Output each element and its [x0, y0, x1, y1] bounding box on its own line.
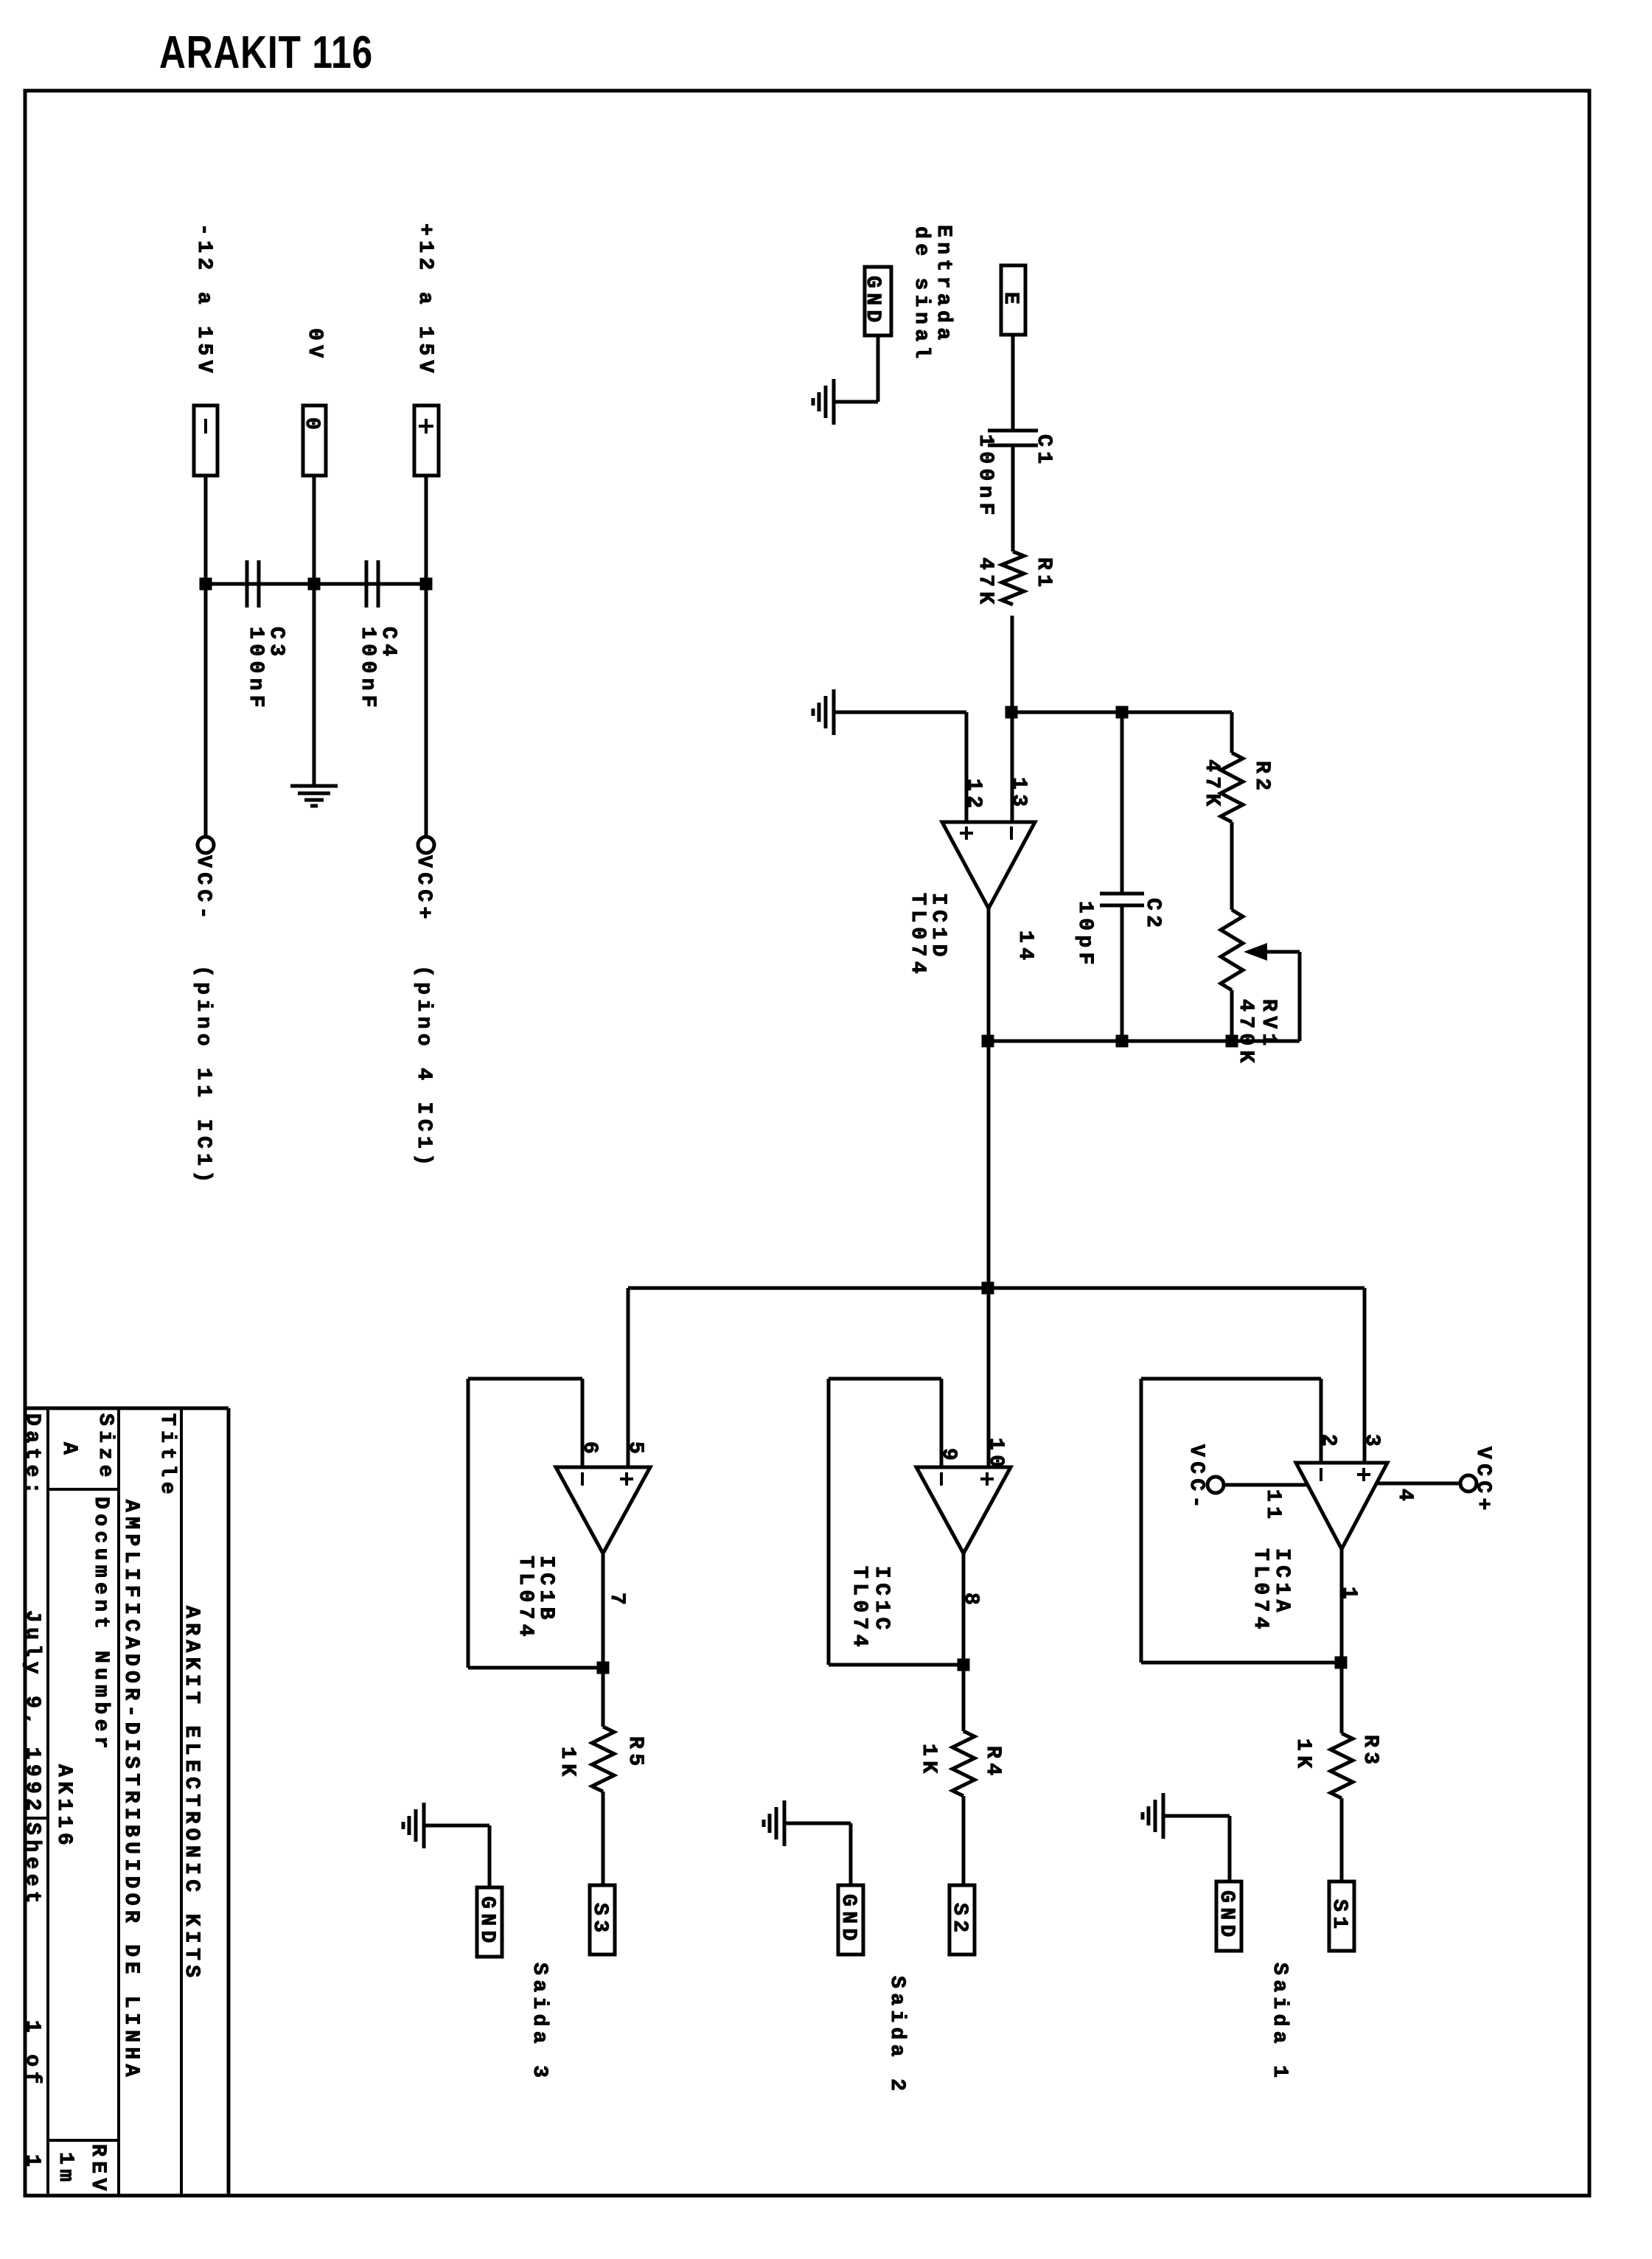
connector P0 (0V) [300, 405, 326, 476]
svg-text:47K: 47K [1200, 759, 1223, 811]
svg-text:GND: GND [1215, 1890, 1238, 1942]
junction IC1A output [1335, 1657, 1348, 1669]
resistor R5 [592, 1727, 614, 1792]
wire E to C1 [1011, 335, 1015, 431]
wire RV1 to junction [1230, 990, 1234, 1041]
connector GND (input) [861, 267, 891, 335]
svg-text:IC1A: IC1A [1270, 1548, 1293, 1617]
svg-text:TL074: TL074 [514, 1556, 537, 1641]
svg-text:A: A [57, 1442, 80, 1459]
node VCC+ bubble (IC1A) [1460, 1475, 1477, 1492]
wire IC1A output [1340, 1549, 1344, 1733]
wire R3 to S1 [1340, 1798, 1344, 1882]
svg-text:-12 a 15V: -12 a 15V [192, 223, 215, 377]
svg-text:IC1B: IC1B [534, 1556, 557, 1624]
op-amp IC1D [942, 822, 1035, 908]
svg-text:AMPLIFICADOR-DISTRIBUIDOR DE L: AMPLIFICADOR-DISTRIBUIDOR DE LINHA [119, 1500, 142, 2081]
ground (IC1D + input) [813, 689, 834, 735]
svg-text:13: 13 [1007, 777, 1030, 811]
svg-text:0: 0 [300, 417, 323, 434]
connector GND (S1) [1215, 1882, 1241, 1951]
junction power zero [308, 578, 321, 591]
capacitor C3 [247, 560, 259, 608]
svg-text:R4: R4 [981, 1746, 1004, 1780]
connector P+ (+12 a 15V) [414, 405, 439, 476]
svg-text:+12 a 15V: +12 a 15V [414, 223, 436, 377]
wire input gnd [834, 335, 878, 402]
svg-text:Entrada: Entrada [932, 225, 955, 344]
wire bus to IC1A + [1363, 1288, 1367, 1463]
node VCC- bubble [198, 837, 214, 853]
op-amp IC1C [916, 1467, 1011, 1553]
svg-text:de sinal: de sinal [910, 226, 933, 363]
op-amp IC1A [1296, 1463, 1387, 1549]
junction IC1B output [597, 1662, 610, 1674]
ground (S2) [764, 1800, 784, 1846]
svg-text:11: 11 [1261, 1489, 1284, 1523]
junction IC1C output [958, 1659, 970, 1671]
wire IC1D output [987, 908, 991, 1467]
junction output/feedback [982, 1035, 994, 1048]
connector S3 [588, 1885, 615, 1955]
resistor R4 [952, 1731, 975, 1796]
svg-text:Title: Title [156, 1413, 178, 1499]
connector E (signal input) [999, 265, 1025, 335]
op-amp IC1B [556, 1467, 650, 1553]
svg-text:S1: S1 [1328, 1899, 1350, 1933]
wire C2 line right [1120, 905, 1124, 1041]
wire 0 rail [313, 476, 316, 786]
svg-text:4: 4 [1393, 1489, 1416, 1506]
junction power plus [420, 578, 433, 591]
wire C2 line left [1120, 712, 1124, 894]
svg-text:1m: 1m [54, 2152, 77, 2186]
svg-text:10: 10 [984, 1438, 1007, 1472]
ground (S1) [1143, 1793, 1163, 1839]
connector S1 [1328, 1882, 1354, 1951]
svg-text:GND: GND [861, 276, 884, 327]
svg-text:0V: 0V [303, 328, 326, 362]
svg-text:Saida 2: Saida 2 [885, 1976, 908, 2095]
svg-text:R1: R1 [1032, 557, 1055, 591]
connector P- (-12 a 15V) [194, 405, 217, 476]
wire distribution bus vertical [628, 1287, 1365, 1290]
svg-text:GND: GND [475, 1896, 498, 1948]
junction power minus [200, 578, 212, 591]
svg-text:100nF: 100nF [356, 627, 379, 712]
svg-text:10pF: 10pF [1073, 901, 1096, 970]
svg-text:1K: 1K [1292, 1738, 1314, 1772]
wire R5 to S3 [602, 1792, 605, 1885]
svg-text:ARAKIT 116: ARAKIT 116 [159, 27, 373, 78]
svg-text:1: 1 [21, 2154, 43, 2171]
svg-text:47K: 47K [974, 557, 997, 609]
label Entrada de sinal [910, 225, 955, 363]
wire IC1B output [602, 1553, 605, 1727]
node VCC+ bubble [418, 837, 434, 853]
capacitor C2 [1100, 894, 1144, 905]
svg-text:TL074: TL074 [906, 893, 929, 978]
wire S1 gnd [1163, 1816, 1230, 1882]
trimmer RV1 [1221, 910, 1300, 1041]
junction RV1/feedback [1226, 1035, 1238, 1048]
wire R4 to S2 [962, 1796, 966, 1885]
svg-text:REV: REV [86, 2144, 109, 2196]
resistor R3 [1331, 1733, 1353, 1798]
svg-text:VCC+: VCC+ [1471, 1447, 1494, 1515]
svg-text:470K: 470K [1234, 999, 1257, 1068]
svg-text:AK116: AK116 [52, 1764, 75, 1850]
svg-text:5: 5 [624, 1441, 646, 1458]
svg-text:7: 7 [605, 1593, 628, 1609]
svg-text:TL074: TL074 [848, 1566, 871, 1651]
wire feedback vertical to output [988, 1040, 1232, 1043]
ground (power 0V rail) [290, 786, 338, 806]
ground (S3) [403, 1803, 424, 1848]
svg-text:14: 14 [1014, 930, 1036, 964]
wire C1 to R1 [1011, 445, 1015, 551]
svg-text:VCC-: VCC- [192, 855, 215, 924]
svg-text:1K: 1K [556, 1747, 579, 1781]
svg-text:S3: S3 [588, 1903, 611, 1937]
svg-text:C3: C3 [265, 627, 287, 661]
svg-text:3: 3 [1360, 1434, 1383, 1451]
svg-text:VCC-: VCC- [1185, 1444, 1207, 1513]
connector GND (S2) [837, 1885, 863, 1955]
svg-text:July 9, 1992: July 9, 1992 [21, 1610, 43, 1815]
wire bus to IC1B + [627, 1288, 630, 1467]
wire feedback node vertical [1011, 711, 1232, 714]
wire IC1C feedback [829, 1379, 963, 1665]
svg-text:RV1: RV1 [1257, 999, 1280, 1051]
svg-text:100nF: 100nF [974, 434, 997, 520]
svg-text:TL074: TL074 [1249, 1548, 1272, 1634]
junction node A [1006, 706, 1018, 719]
title block outline [25, 1408, 229, 2196]
wire R1 to inverting input (node A) [1011, 616, 1014, 822]
connector GND (S3) [475, 1887, 502, 1957]
capacitor C1 [988, 431, 1038, 445]
wire non-inverting input to ground [834, 712, 966, 822]
svg-text:S2: S2 [948, 1903, 971, 1937]
resistor R2 [1221, 753, 1243, 822]
wire VCC- pin 11 [1224, 1483, 1308, 1487]
svg-text:100nF: 100nF [244, 627, 267, 712]
svg-text:VCC+: VCC+ [412, 855, 435, 924]
wire IC1B feedback [468, 1379, 603, 1668]
wire R2 lead [1230, 712, 1234, 753]
svg-text:E: E [999, 292, 1022, 309]
wire IC1A feedback [1141, 1379, 1341, 1663]
svg-text:R5: R5 [624, 1736, 646, 1770]
svg-text:C1: C1 [1032, 434, 1055, 468]
capacitor C4 [366, 560, 378, 608]
svg-text:Saida 1: Saida 1 [1268, 1963, 1291, 2082]
svg-text:(pino 4 IC1): (pino 4 IC1) [412, 965, 435, 1170]
svg-text:1 of: 1 of [21, 2020, 43, 2089]
wire + rail [425, 476, 428, 837]
connector S2 [948, 1885, 975, 1955]
svg-text:1K: 1K [917, 1744, 940, 1778]
svg-text:(pino 11 IC1): (pino 11 IC1) [192, 965, 215, 1188]
node VCC- bubble (IC1A) [1207, 1477, 1224, 1493]
svg-text:IC1C: IC1C [870, 1566, 893, 1635]
wire IC1C output [962, 1553, 966, 1731]
svg-text:C2: C2 [1141, 898, 1164, 932]
svg-text:Date:: Date: [21, 1413, 43, 1499]
wire S3 gnd [424, 1825, 489, 1887]
wire VCC+ pin 4 [1376, 1482, 1460, 1486]
svg-text:Sheet: Sheet [21, 1823, 43, 1908]
wire - rail [204, 476, 208, 837]
wire S2 gnd [784, 1823, 851, 1885]
svg-text:R3: R3 [1359, 1735, 1381, 1769]
svg-text:GND: GND [837, 1894, 860, 1946]
svg-text:Document Number: Document Number [89, 1497, 112, 1753]
svg-text:R2: R2 [1250, 761, 1273, 795]
svg-text:Size: Size [94, 1413, 116, 1482]
junction C2 right [1116, 1035, 1129, 1048]
svg-text:Saida 3: Saida 3 [528, 1963, 551, 2082]
ground (input) [813, 379, 834, 425]
svg-text:C4: C4 [377, 627, 400, 661]
svg-text:IC1D: IC1D [927, 893, 949, 961]
junction C2 left [1116, 706, 1129, 719]
wire power bus vertical [206, 582, 426, 586]
svg-text:ARAKIT ELECTRONIC KITS: ARAKIT ELECTRONIC KITS [180, 1606, 203, 1982]
wire R2 to RV1 [1230, 822, 1234, 910]
resistor R1 [1002, 551, 1024, 605]
junction distribution node [982, 1282, 994, 1295]
